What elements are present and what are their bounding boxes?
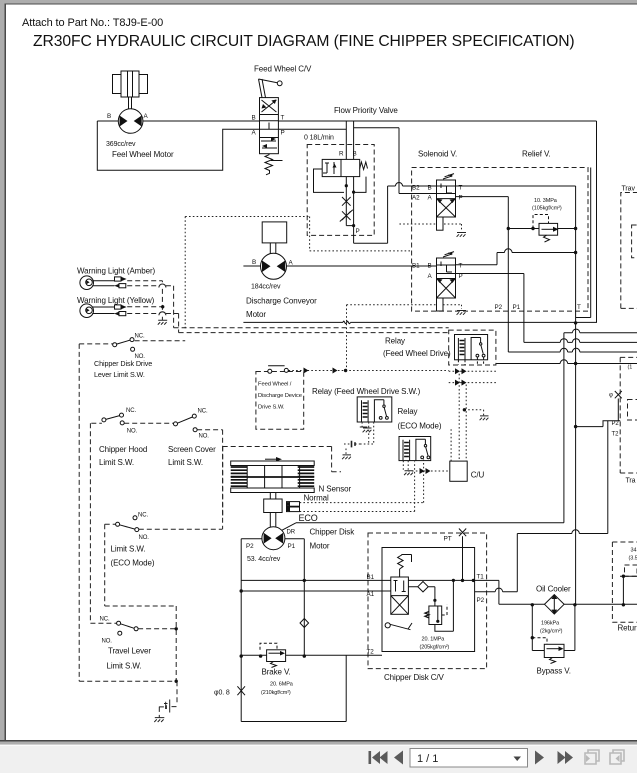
svg-text:Discharge Device: Discharge Device [258,393,302,399]
svg-text:NO.: NO. [199,434,210,440]
svg-text:Return: Return [618,624,637,633]
svg-text:P: P [459,195,463,202]
svg-text:(ECO Mode): (ECO Mode) [398,422,442,431]
svg-text:Tra: Tra [626,478,636,485]
svg-text:Relay: Relay [398,407,418,416]
svg-text:34: 34 [631,548,637,554]
svg-text:Normal: Normal [304,493,330,502]
svg-text:B: B [353,151,357,158]
svg-text:T1: T1 [477,574,485,581]
svg-text:Feed Wheel C/V: Feed Wheel C/V [254,65,312,74]
svg-text:184cc/rev: 184cc/rev [251,284,281,291]
svg-text:C/U: C/U [471,471,485,480]
svg-text:Motor: Motor [310,542,330,551]
svg-text:P: P [459,273,463,280]
svg-text:196kPa: 196kPa [541,621,560,627]
svg-text:Warning Light (Amber): Warning Light (Amber) [77,267,156,276]
svg-text:Trav: Trav [622,186,636,193]
svg-text:NO.: NO. [127,429,138,435]
svg-text:φ: φ [609,393,613,399]
svg-text:(ECO Mode): (ECO Mode) [111,559,155,568]
svg-text:T: T [577,304,581,311]
svg-text:20. 6MPa: 20. 6MPa [270,682,294,688]
svg-text:Chipper Disk Drive: Chipper Disk Drive [94,359,152,368]
svg-text:Bypass V.: Bypass V. [537,667,571,676]
svg-text:Warning Light (Yellow): Warning Light (Yellow) [77,296,155,305]
svg-text:Attach to Part No.: T8J9-E-00: Attach to Part No.: T8J9-E-00 [22,17,163,29]
svg-text:DR: DR [287,530,296,536]
svg-text:Limit S.W.: Limit S.W. [99,458,134,467]
svg-text:20. 1MPa: 20. 1MPa [422,637,446,643]
svg-text:P1: P1 [513,304,521,311]
svg-text:φ0. 8: φ0. 8 [214,690,230,697]
svg-text:P: P [281,130,285,137]
svg-text:B1: B1 [367,574,375,581]
svg-text:B: B [107,113,111,120]
svg-text:B: B [252,259,256,266]
svg-text:P: P [356,228,360,235]
svg-text:(205kgf/cm²): (205kgf/cm²) [420,645,450,651]
svg-text:(1: (1 [628,365,633,371]
svg-text:NC.: NC. [138,513,148,519]
svg-text:T: T [281,115,285,122]
svg-text:T: T [459,185,463,192]
svg-text:0 18L/min: 0 18L/min [304,135,334,142]
svg-text:Drive S.W.: Drive S.W. [258,405,285,411]
svg-text:N Sensor: N Sensor [319,485,352,494]
svg-text:369cc/rev: 369cc/rev [106,141,136,148]
svg-text:B: B [428,185,432,192]
svg-text:(3.5: (3.5 [629,556,637,562]
svg-text:(Feed Wheel Drive): (Feed Wheel Drive) [383,349,451,358]
svg-text:R: R [339,151,344,158]
svg-text:A2: A2 [412,195,420,202]
svg-text:Feed Wheel /: Feed Wheel / [258,382,292,388]
svg-text:A1: A1 [367,591,375,598]
svg-text:NO.: NO. [102,639,113,645]
svg-text:Motor: Motor [246,310,266,319]
svg-text:NC.: NC. [100,617,110,623]
svg-text:Chipper Hood: Chipper Hood [99,445,147,454]
svg-text:Flow Priority Valve: Flow Priority Valve [334,106,398,115]
svg-text:NC.: NC. [198,409,208,415]
svg-text:P2: P2 [477,597,485,604]
svg-text:Discharge Conveyor: Discharge Conveyor [246,297,317,306]
svg-text:T2: T2 [367,649,375,656]
svg-text:(210kgf/cm²): (210kgf/cm²) [261,690,291,696]
svg-text:NC.: NC. [126,408,136,414]
svg-text:NC.: NC. [135,334,145,340]
svg-text:ECO: ECO [299,513,318,523]
svg-text:Limit S.W.: Limit S.W. [168,458,203,467]
svg-text:PT: PT [444,536,452,543]
svg-text:Relay (Feed Wheel Drive S.W.): Relay (Feed Wheel Drive S.W.) [312,387,421,396]
svg-text:T2: T2 [612,432,620,438]
svg-text:Brake V.: Brake V. [262,668,291,677]
svg-text:T: T [459,263,463,270]
svg-text:P2: P2 [612,421,620,427]
svg-text:Relay: Relay [385,337,405,346]
svg-text:Limit S.W.: Limit S.W. [111,545,146,554]
svg-text:Feel Wheel Motor: Feel Wheel Motor [112,150,174,159]
svg-text:Screen Cover: Screen Cover [168,445,216,454]
svg-text:Limit S.W.: Limit S.W. [107,662,142,671]
svg-text:ZR30FC HYDRAULIC CIRCUIT DIAGR: ZR30FC HYDRAULIC CIRCUIT DIAGRAM (FINE C… [33,33,575,50]
svg-text:Chipper Disk C/V: Chipper Disk C/V [384,673,445,682]
svg-text:P1: P1 [288,543,296,550]
svg-text:Travel Lever: Travel Lever [108,647,151,656]
svg-text:Oil Cooler: Oil Cooler [536,585,571,594]
svg-text:B2: B2 [412,185,420,192]
svg-text:Relief V.: Relief V. [522,150,551,159]
svg-text:B: B [252,115,256,122]
svg-text:NO.: NO. [139,535,150,541]
svg-text:Chipper Disk: Chipper Disk [310,528,356,537]
svg-text:(2kg/cm²): (2kg/cm²) [540,629,563,635]
svg-text:1 / 1: 1 / 1 [417,753,438,765]
svg-text:P2: P2 [246,543,254,550]
svg-text:10. 3MPa: 10. 3MPa [534,198,558,204]
svg-text:53. 4cc/rev: 53. 4cc/rev [247,556,281,563]
svg-text:P2: P2 [495,304,503,311]
svg-text:Lever Limit S.W.: Lever Limit S.W. [94,370,145,379]
svg-text:(105kgf/cm²): (105kgf/cm²) [532,206,562,212]
svg-text:Solenoid V.: Solenoid V. [418,150,457,159]
